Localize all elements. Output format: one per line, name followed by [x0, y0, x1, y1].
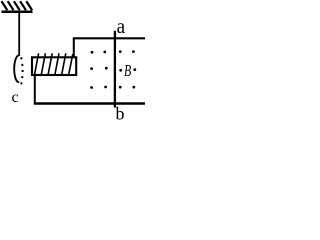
- field dots (B out of page): [90, 50, 136, 89]
- svg-text:B: B: [124, 61, 131, 80]
- vertical boundary line through a and b: [114, 31, 116, 108]
- svg-text:c: c: [12, 89, 19, 106]
- svg-text:a: a: [117, 14, 126, 38]
- wire from coil top to line a: [73, 38, 75, 57]
- solenoid body L: [32, 57, 76, 75]
- solenoid coil winding strokes: [34, 53, 72, 75]
- wire from coil bottom to line b: [34, 75, 36, 104]
- line b (bottom boundary wire): [34, 102, 145, 104]
- ceiling support hatching: [2, 1, 33, 10]
- ring c hidden half (dotted): [20, 57, 24, 84]
- line a (top boundary wire): [73, 37, 145, 39]
- thread suspending ring c: [18, 13, 20, 56]
- ceiling bar: [2, 11, 33, 14]
- svg-text:b: b: [116, 104, 125, 124]
- ring c front arc: [14, 56, 18, 83]
